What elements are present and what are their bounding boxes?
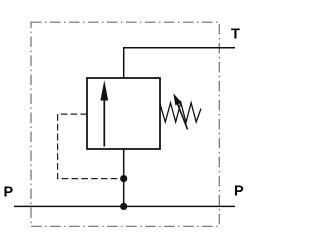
wire: T line from valve top to tank port <box>124 48 235 78</box>
pilot line (dashed) <box>58 114 120 179</box>
valve body (square envelope) <box>87 78 160 149</box>
junction node (P line) <box>120 203 127 210</box>
wire: valve bottom to P line <box>123 149 125 206</box>
junction node (pilot tap) <box>120 175 127 182</box>
spring (zigzag) <box>160 102 201 122</box>
svg-text:P: P <box>4 185 14 201</box>
enclosure boundary (dash-dot frame) <box>31 22 219 226</box>
adjustment arrow through spring <box>176 101 187 130</box>
svg-text:T: T <box>231 27 240 43</box>
flow arrow inside valve <box>103 98 105 147</box>
wire: P pressure line <box>14 205 235 207</box>
svg-text:P: P <box>234 184 244 200</box>
